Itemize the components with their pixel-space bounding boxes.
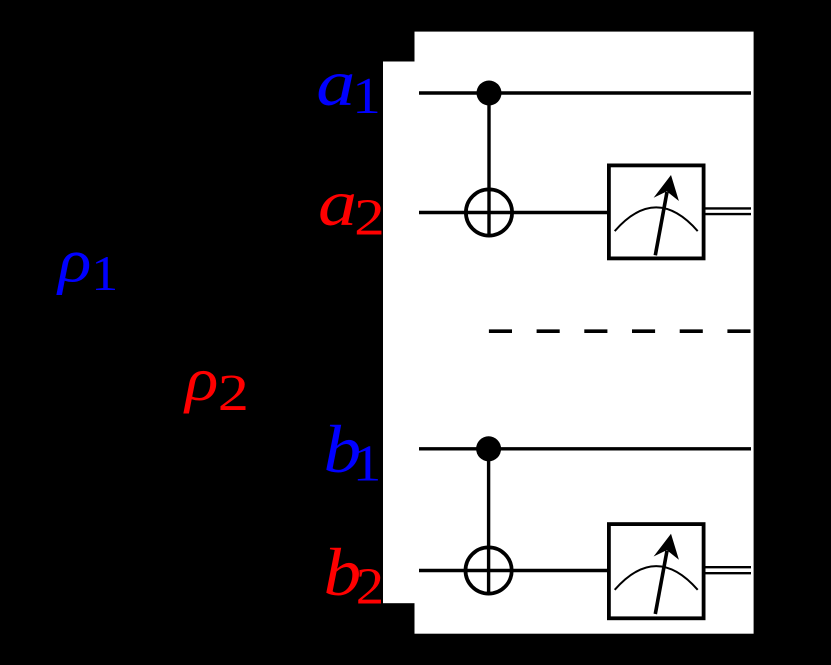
CNOT control-target link (top) [487,93,490,236]
dashed divider between subsystems [489,329,751,333]
wire a2 [419,211,609,214]
svg-text:ρ: ρ [56,226,91,296]
classical double wire out of M1 [704,207,751,209]
wire b1 [419,447,751,450]
measurement gate M1 box [609,165,704,258]
measurement M2 dial arc [615,566,698,590]
svg-text:a: a [316,47,355,120]
label b1 [324,412,382,492]
CNOT control-target link (bottom) [487,449,490,595]
measurement gate M2 box [609,524,704,618]
label b2 [324,535,385,615]
measurement M2 needle arrowhead [654,534,679,560]
svg-text:1: 1 [352,68,381,125]
CNOT control dot on b1 [476,436,501,461]
label rho2 [183,345,249,422]
svg-text:ρ: ρ [183,345,218,415]
measurement M2 needle [655,551,667,614]
measurement M1 dial arc [615,207,698,231]
wire a1 [419,91,751,94]
CNOT target on b2 [466,547,512,593]
CNOT control dot on a1 [477,81,502,106]
wire b2 [419,569,609,572]
measurement M1 needle arrowhead [654,175,679,201]
svg-text:a: a [318,167,357,240]
svg-text:2: 2 [354,189,385,247]
measurement M1 needle [655,192,667,255]
svg-text:2: 2 [356,558,384,615]
label a2 [318,167,385,247]
CNOT target on a2 [466,189,512,235]
classical double wire out of M2 [704,566,751,568]
circuit panel (front white page) [415,32,754,634]
svg-text:2: 2 [218,365,249,422]
label rho1 [56,226,118,302]
label a1 [316,47,381,125]
svg-text:1: 1 [353,435,382,492]
back sheet (offset white page behind circuit panel) [383,62,715,604]
svg-text:1: 1 [91,247,118,302]
